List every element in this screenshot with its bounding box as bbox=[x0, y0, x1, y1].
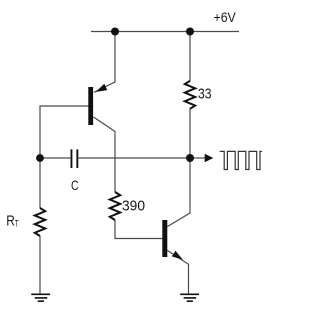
svg-text:390: 390 bbox=[122, 197, 145, 214]
svg-text:T: T bbox=[15, 218, 19, 228]
svg-text:+6V: +6V bbox=[214, 9, 237, 25]
svg-text:C: C bbox=[71, 177, 79, 193]
svg-text:33: 33 bbox=[198, 86, 212, 102]
svg-text:R: R bbox=[6, 214, 15, 230]
